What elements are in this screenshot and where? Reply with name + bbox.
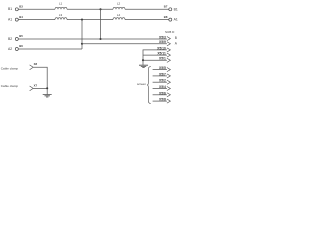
svg-text:B: B — [175, 36, 177, 40]
svg-text:L3: L3 — [59, 13, 63, 17]
svg-text:B2: B2 — [8, 37, 12, 41]
junction dot X5/1 — [142, 59, 144, 61]
svg-text:screen: screen — [137, 82, 146, 86]
wire B1 to L1 — [18, 8, 55, 10]
svg-text:B4: B4 — [19, 15, 23, 19]
pin X5/11 chevron — [167, 53, 171, 57]
pin X5/10 chevron — [167, 48, 171, 52]
svg-text:X5/10: X5/10 — [157, 46, 166, 50]
ground (cable clamps) — [43, 95, 52, 97]
pin X5/9 chevron — [167, 42, 171, 46]
screen pin X5/5 — [153, 69, 167, 71]
wire L1 to L2 — [67, 8, 113, 10]
svg-text:X5/7: X5/7 — [159, 72, 166, 76]
junction dot A mid row — [81, 43, 83, 45]
svg-text:X5/11: X5/11 — [157, 52, 166, 56]
svg-text:B8: B8 — [164, 15, 168, 19]
wire clamp2 to bus — [33, 87, 47, 89]
svg-text:X7: X7 — [34, 83, 38, 87]
svg-text:L4: L4 — [117, 13, 121, 17]
wire B2 row to SUB D pin B — [18, 38, 167, 40]
svg-text:L2: L2 — [117, 1, 121, 5]
svg-text:X5/1: X5/1 — [159, 57, 166, 61]
svg-text:B1: B1 — [8, 7, 12, 11]
svg-text:X5/3: X5/3 — [159, 35, 166, 39]
screen pin X5/2 — [153, 81, 167, 83]
screen pin X5/8 — [153, 100, 167, 102]
svg-text:Cable clamp: Cable clamp — [1, 67, 18, 71]
svg-text:X5/6: X5/6 — [159, 91, 166, 95]
svg-text:A2: A2 — [8, 47, 12, 51]
junction dot B2 row — [99, 38, 101, 40]
wire A mid row to SUB D pin A — [82, 43, 167, 45]
wire X5/11 row — [143, 54, 167, 56]
svg-text:X8: X8 — [34, 62, 38, 66]
pin X5/1 chevron — [167, 58, 171, 62]
svg-text:X5/8: X5/8 — [159, 98, 166, 102]
svg-text:A: A — [175, 41, 178, 45]
svg-text:L1: L1 — [59, 1, 63, 5]
cable clamp 2 pin — [30, 86, 34, 91]
wire L4 to right terminal A1 — [125, 19, 169, 21]
svg-text:B3: B3 — [19, 5, 23, 9]
svg-text:A1: A1 — [8, 17, 12, 21]
svg-text:X5/4: X5/4 — [159, 85, 166, 89]
junction node B (dot) — [99, 8, 101, 10]
cable clamp 1 pin — [30, 65, 34, 70]
svg-text:Cable clamp: Cable clamp — [1, 84, 18, 88]
junction node A (dot) — [81, 19, 83, 21]
wire L2 to right terminal B1 — [125, 8, 169, 10]
svg-text:X5/9: X5/9 — [159, 40, 166, 44]
wire X5/10 row — [143, 50, 167, 60]
wire A2 row to vertical — [18, 48, 82, 50]
svg-text:A1: A1 — [174, 18, 178, 22]
svg-text:SUB D: SUB D — [165, 30, 175, 34]
svg-text:X5/5: X5/5 — [159, 66, 166, 70]
svg-text:B6: B6 — [19, 44, 23, 48]
wire clamp1 to bus — [33, 67, 47, 94]
wire X5/1 row — [143, 59, 167, 61]
svg-text:B7: B7 — [164, 5, 168, 9]
vertical wire node B to B2 row — [100, 9, 102, 39]
svg-text:B1: B1 — [174, 7, 178, 11]
svg-text:B5: B5 — [19, 34, 23, 38]
junction dot clamp bus — [46, 87, 48, 89]
vertical wire node A down — [81, 20, 83, 49]
pin X5/3 chevron — [167, 37, 171, 41]
terminal A1 (right) — [169, 18, 172, 21]
ground (right, under X5/1 node) — [142, 60, 144, 65]
screen pin X5/7 — [153, 75, 167, 77]
screen pin X5/4 — [153, 88, 167, 90]
wire L3 to L4 — [67, 19, 113, 21]
screen brace — [147, 67, 151, 104]
screen pin X5/6 — [153, 94, 167, 96]
svg-text:X5/2: X5/2 — [159, 79, 166, 83]
terminal B1 (right) — [169, 8, 172, 11]
wire A1 to L3 — [18, 19, 55, 21]
